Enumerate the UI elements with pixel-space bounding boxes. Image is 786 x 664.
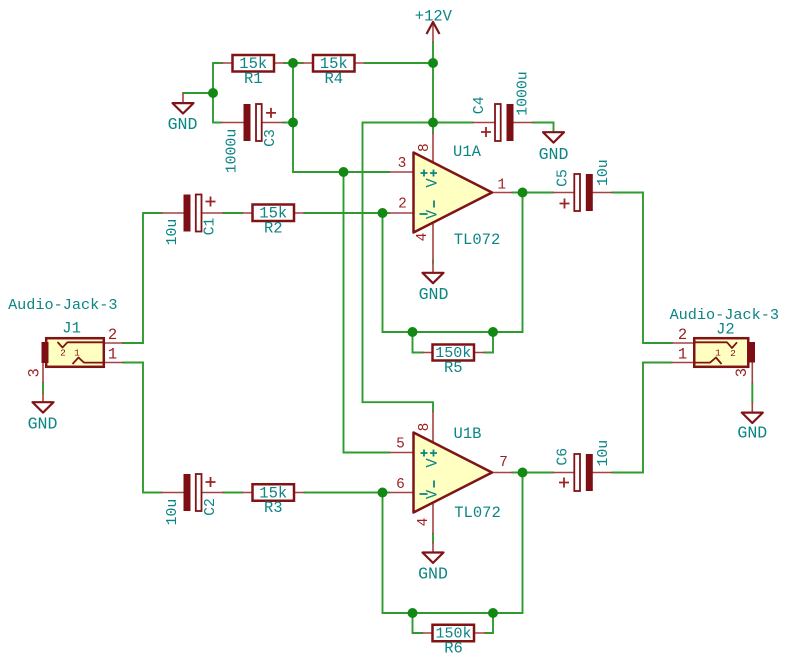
svg-text:10u: 10u — [165, 499, 181, 526]
svg-text:Audio-Jack-3: Audio-Jack-3 — [8, 296, 117, 314]
svg-text:3: 3 — [26, 368, 44, 377]
svg-text:U1A: U1A — [453, 143, 482, 161]
svg-text:2: 2 — [730, 348, 736, 359]
svg-text:V: V — [424, 489, 442, 499]
svg-text:4: 4 — [415, 233, 431, 242]
svg-text:8: 8 — [417, 423, 433, 432]
svg-text:1: 1 — [108, 346, 117, 364]
svg-text:U1B: U1B — [454, 425, 482, 443]
svg-text:J2: J2 — [716, 321, 735, 339]
svg-text:2: 2 — [108, 326, 117, 344]
svg-text:GND: GND — [28, 415, 58, 434]
svg-text:TL072: TL072 — [454, 504, 501, 522]
svg-text:3: 3 — [733, 368, 751, 377]
svg-text:GND: GND — [539, 145, 569, 164]
svg-text:2: 2 — [398, 197, 407, 213]
svg-text:8: 8 — [417, 143, 433, 152]
svg-text:C1: C1 — [203, 218, 219, 236]
svg-text:R2: R2 — [264, 220, 283, 238]
svg-text:V: V — [424, 458, 442, 468]
svg-text:V: V — [424, 209, 442, 219]
svg-text:R4: R4 — [324, 70, 343, 88]
svg-text:C5: C5 — [556, 169, 572, 187]
svg-text:1: 1 — [715, 348, 721, 359]
svg-text:1: 1 — [74, 348, 80, 359]
svg-text:2: 2 — [60, 348, 66, 359]
svg-text:V: V — [424, 178, 442, 188]
svg-text:C3: C3 — [263, 129, 279, 147]
svg-text:R6: R6 — [444, 640, 463, 658]
svg-text:+12V: +12V — [415, 7, 453, 25]
svg-text:3: 3 — [398, 156, 407, 172]
svg-text:10u: 10u — [596, 159, 612, 186]
svg-text:C2: C2 — [203, 498, 219, 516]
svg-text:10u: 10u — [165, 219, 181, 246]
svg-text:7: 7 — [499, 455, 508, 471]
svg-text:4: 4 — [416, 518, 432, 527]
svg-text:10u: 10u — [596, 440, 612, 467]
svg-text:C4: C4 — [472, 96, 488, 114]
svg-text:1: 1 — [497, 177, 506, 193]
svg-text:2: 2 — [678, 326, 687, 344]
svg-text:R3: R3 — [264, 499, 283, 517]
svg-text:GND: GND — [737, 424, 767, 443]
svg-text:1000u: 1000u — [515, 71, 531, 115]
svg-text:GND: GND — [419, 285, 449, 304]
svg-text:J1: J1 — [62, 320, 81, 338]
svg-text:6: 6 — [396, 477, 405, 493]
svg-text:5: 5 — [396, 437, 405, 453]
svg-text:1: 1 — [678, 346, 687, 364]
svg-text:GND: GND — [168, 115, 198, 134]
svg-text:R5: R5 — [444, 359, 463, 377]
svg-text:1000u: 1000u — [225, 129, 241, 173]
svg-text:R1: R1 — [244, 70, 263, 88]
svg-text:GND: GND — [418, 565, 448, 584]
svg-text:TL072: TL072 — [454, 231, 501, 249]
svg-text:C6: C6 — [556, 448, 572, 466]
